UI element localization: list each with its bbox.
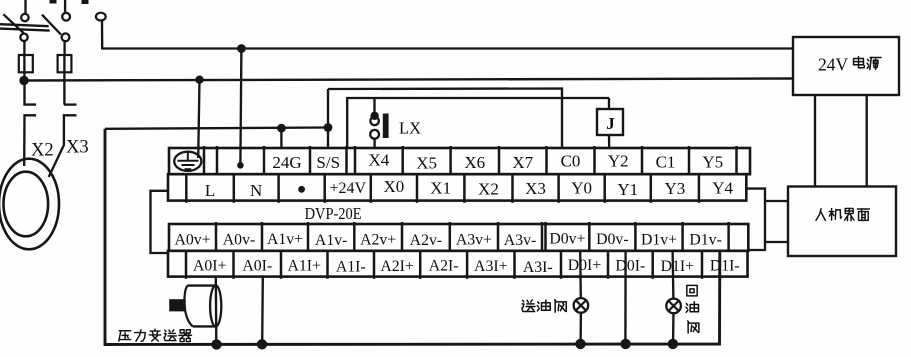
svg-text:A1v+: A1v+	[267, 231, 303, 248]
svg-text:A3v+: A3v+	[456, 232, 492, 249]
svg-text:24V: 24V	[818, 55, 849, 75]
svg-text:X3: X3	[525, 179, 546, 198]
svg-text:X2: X2	[478, 180, 499, 199]
svg-text:A3v-: A3v-	[504, 232, 536, 249]
svg-text:D1I+: D1I+	[661, 258, 695, 275]
svg-text:A0I-: A0I-	[242, 258, 272, 275]
svg-text:A3I-: A3I-	[523, 259, 553, 276]
svg-text:A0I+: A0I+	[193, 258, 227, 275]
svg-text:X1: X1	[430, 179, 451, 198]
svg-text:Y5: Y5	[702, 153, 723, 172]
svg-text:X4: X4	[368, 151, 389, 170]
svg-text:D0I+: D0I+	[568, 257, 602, 274]
svg-text:X0: X0	[384, 177, 405, 196]
svg-text:LX: LX	[399, 119, 421, 138]
svg-text:A2I+: A2I+	[380, 258, 414, 275]
svg-text:A1v-: A1v-	[315, 232, 347, 249]
svg-text:X5: X5	[416, 154, 437, 173]
svg-text:D1v-: D1v-	[689, 232, 721, 249]
svg-text:Y1: Y1	[617, 180, 638, 199]
svg-text:DVP-20E: DVP-20E	[305, 204, 362, 223]
svg-text:L: L	[205, 181, 215, 200]
svg-text:X2: X2	[31, 141, 54, 161]
svg-text:D0v+: D0v+	[549, 231, 585, 248]
svg-text:A1I-: A1I-	[336, 259, 366, 276]
svg-text:+24V: +24V	[329, 180, 366, 197]
svg-text:A0v+: A0v+	[174, 232, 210, 249]
svg-text:X6: X6	[464, 153, 485, 172]
svg-text:A3I+: A3I+	[474, 258, 508, 275]
svg-text:Y4: Y4	[712, 179, 733, 198]
svg-text:C1: C1	[656, 153, 676, 172]
svg-text:X7: X7	[512, 153, 533, 172]
svg-text:C0: C0	[561, 152, 581, 171]
svg-text:D1I-: D1I-	[710, 258, 740, 275]
svg-text:D0I-: D0I-	[615, 258, 645, 275]
svg-text:Y3: Y3	[664, 179, 685, 198]
svg-text:A2I-: A2I-	[429, 258, 459, 275]
svg-text:A0v-: A0v-	[223, 232, 255, 249]
svg-text:D0v-: D0v-	[596, 231, 628, 248]
svg-text:A1I+: A1I+	[288, 258, 322, 275]
svg-text:Y0: Y0	[571, 179, 592, 198]
svg-text:Y2: Y2	[608, 152, 629, 171]
svg-text:S/S: S/S	[316, 153, 340, 172]
svg-text:A2v-: A2v-	[410, 232, 442, 249]
svg-text:24G: 24G	[272, 153, 301, 172]
svg-text:D1v+: D1v+	[641, 232, 677, 249]
svg-text:A2v+: A2v+	[360, 232, 396, 249]
svg-text:X3: X3	[66, 138, 89, 158]
svg-text:J: J	[606, 114, 615, 133]
svg-text:N: N	[250, 181, 262, 200]
